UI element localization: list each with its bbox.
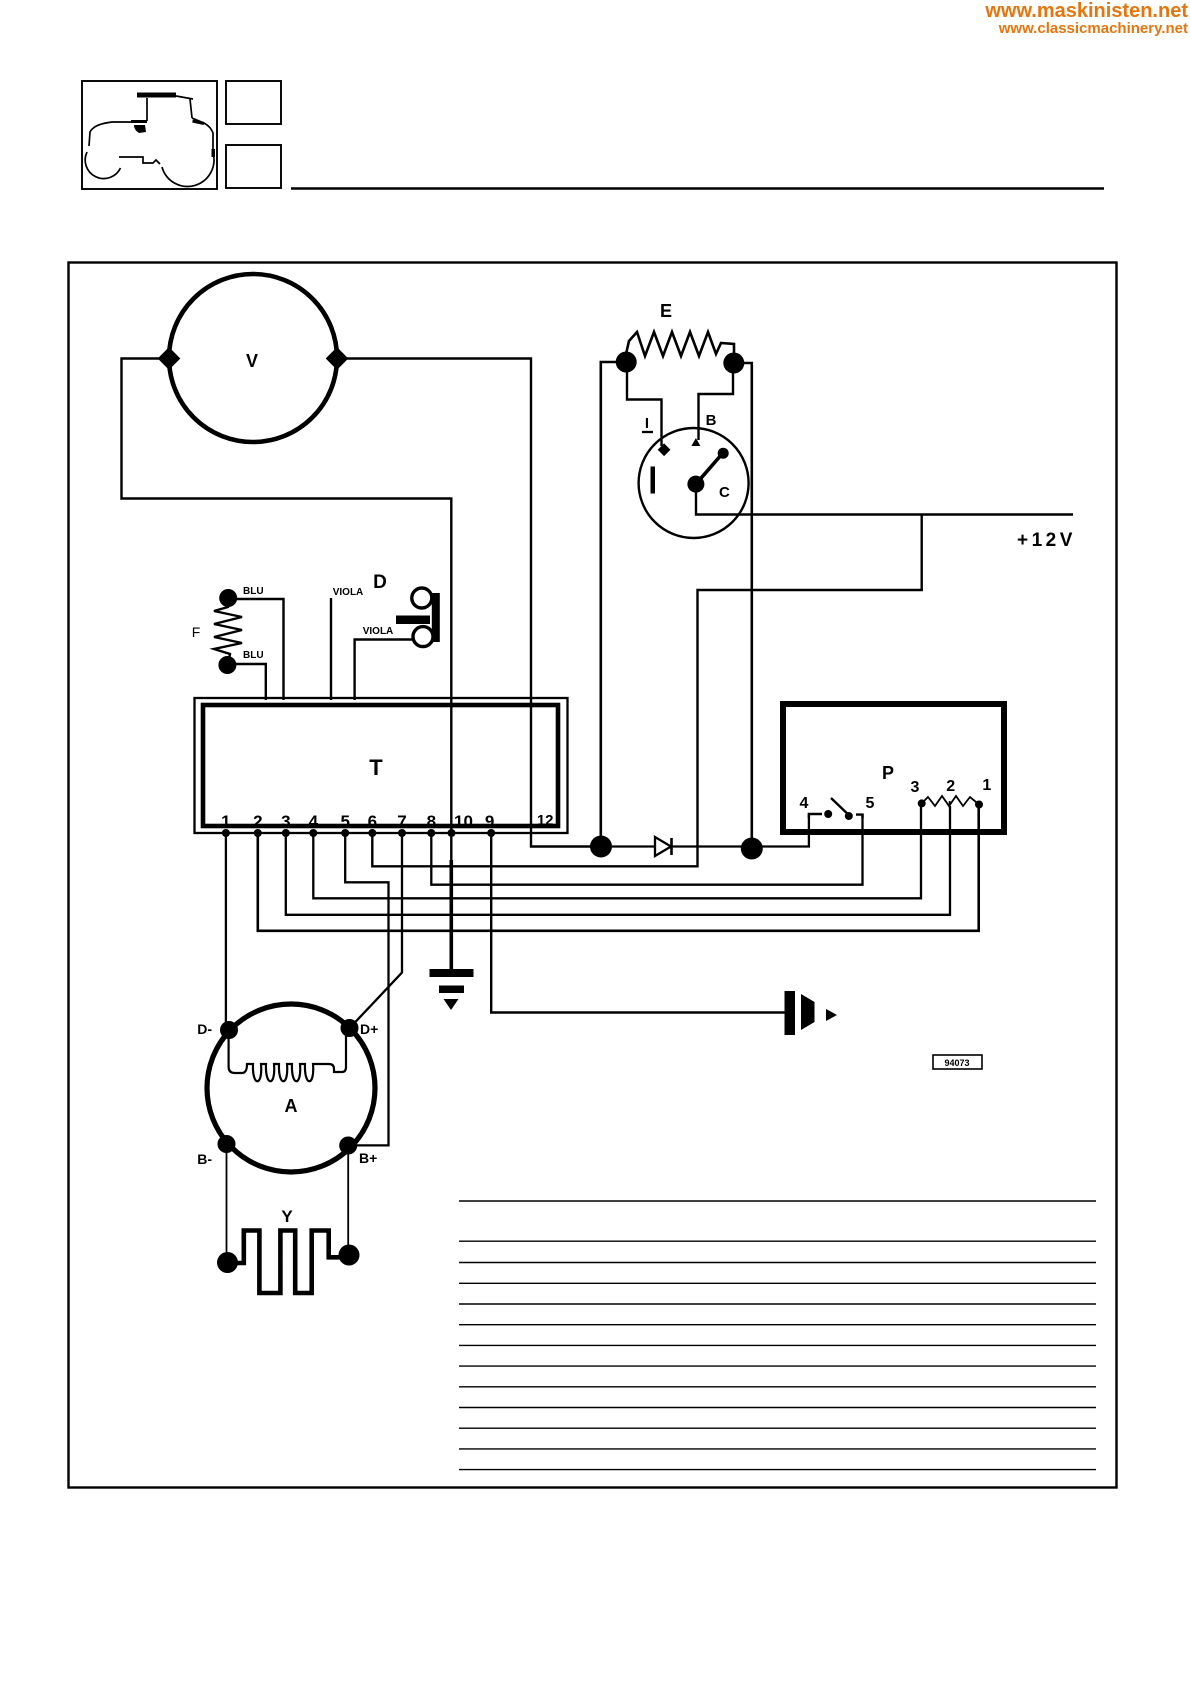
terminal I bbox=[658, 443, 671, 456]
svg-text:3: 3 bbox=[281, 812, 290, 831]
note line 4 bbox=[459, 1282, 1096, 1284]
note line 7 bbox=[459, 1344, 1096, 1346]
D bar bbox=[432, 593, 440, 642]
legend box 1 bbox=[226, 81, 281, 124]
note line 11 bbox=[459, 1427, 1096, 1429]
svg-text:7: 7 bbox=[397, 812, 406, 831]
wire junction to diode bbox=[612, 845, 655, 847]
note line 13 bbox=[459, 1469, 1096, 1471]
svg-text:D: D bbox=[373, 572, 387, 593]
svg-text:3: 3 bbox=[911, 779, 920, 796]
svg-text:2: 2 bbox=[946, 778, 955, 795]
svg-text:10: 10 bbox=[454, 812, 473, 831]
wire E right terminal to C terminal B bbox=[699, 371, 734, 440]
regulator T outer bbox=[195, 698, 568, 833]
svg-text:I: I bbox=[645, 415, 649, 432]
part number box bbox=[933, 1055, 982, 1069]
terminal D- bbox=[220, 1021, 238, 1039]
D contact circle bottom bbox=[413, 627, 433, 647]
svg-text:BLU: BLU bbox=[243, 650, 264, 661]
wire V+ down to diode junction bbox=[337, 359, 601, 847]
svg-text:VIOLA: VIOLA bbox=[333, 587, 364, 598]
svg-text:1: 1 bbox=[221, 812, 230, 831]
svg-text:B: B bbox=[706, 412, 717, 429]
svg-text:B-: B- bbox=[197, 1151, 212, 1167]
header rule bbox=[291, 187, 1104, 189]
wire B+ to Y bbox=[347, 1152, 349, 1247]
wire pin3 to P2 bbox=[286, 806, 950, 915]
svg-text:5: 5 bbox=[340, 812, 349, 831]
D contact circle top bbox=[412, 588, 432, 608]
svg-text:D+: D+ bbox=[360, 1021, 378, 1037]
terminal B bbox=[691, 438, 700, 446]
svg-text:www.classicmachinery.net: www.classicmachinery.net bbox=[998, 20, 1188, 37]
wire F top to T bbox=[236, 599, 284, 700]
control box P bbox=[783, 704, 1004, 832]
svg-text:www.maskinisten.net: www.maskinisten.net bbox=[984, 0, 1188, 22]
wire B- to Y bbox=[226, 1150, 228, 1254]
svg-text:T: T bbox=[369, 755, 383, 780]
regulator T inner bbox=[203, 705, 558, 826]
svg-text:9: 9 bbox=[485, 812, 494, 831]
wire pin8 to P5 bbox=[431, 814, 862, 885]
wire +12V step down to pin 6 bbox=[372, 515, 921, 867]
note line 12 bbox=[459, 1448, 1096, 1450]
voltmeter V bbox=[169, 274, 337, 442]
svg-text:BLU: BLU bbox=[243, 586, 264, 597]
contact bar bbox=[651, 467, 656, 494]
P rheostat bbox=[922, 796, 979, 806]
horn bbox=[785, 991, 796, 1035]
terminal V right bbox=[326, 347, 349, 370]
diode bbox=[655, 837, 671, 856]
svg-text:+12V: +12V bbox=[1017, 530, 1076, 551]
note line 10 bbox=[459, 1407, 1096, 1409]
rotor lever bbox=[696, 454, 722, 484]
note line 6 bbox=[459, 1324, 1096, 1326]
svg-text:12: 12 bbox=[537, 812, 554, 829]
note line 9 bbox=[459, 1386, 1096, 1388]
junction dot left bbox=[590, 836, 612, 858]
wire F bottom to T bbox=[235, 664, 266, 700]
terminal B+ bbox=[339, 1137, 357, 1155]
ground stem bbox=[449, 860, 453, 970]
wire E right to P junction bbox=[734, 363, 752, 849]
ignition switch C bbox=[639, 428, 749, 538]
wire V- loop to ground line bbox=[122, 359, 452, 971]
svg-text:5: 5 bbox=[866, 795, 875, 812]
svg-text:C: C bbox=[719, 484, 730, 501]
svg-text:Y: Y bbox=[281, 1207, 293, 1226]
wire pin5 to B+ bbox=[345, 833, 388, 1145]
svg-text:V: V bbox=[246, 351, 258, 371]
svg-text:D-: D- bbox=[197, 1021, 212, 1037]
svg-text:A: A bbox=[285, 1096, 298, 1116]
svg-text:F: F bbox=[192, 624, 201, 640]
P switch lever bbox=[831, 798, 849, 815]
wire E left to diode junction bbox=[601, 362, 626, 847]
svg-text:2: 2 bbox=[253, 812, 262, 831]
D arm bbox=[396, 616, 430, 625]
tractor icon bbox=[85, 95, 215, 186]
wire E left terminal to C terminal I bbox=[627, 370, 662, 446]
svg-text:B+: B+ bbox=[359, 1150, 377, 1166]
svg-text:4: 4 bbox=[800, 795, 809, 812]
note line 2 bbox=[459, 1240, 1096, 1242]
svg-text:E: E bbox=[660, 301, 672, 321]
wire VIOLA1 to T bbox=[330, 598, 332, 700]
terminal D+ bbox=[341, 1019, 359, 1037]
note line 3 bbox=[459, 1262, 1096, 1264]
field coil bbox=[229, 1036, 346, 1081]
svg-text:8: 8 bbox=[427, 812, 436, 831]
wire pin7 to D+ bbox=[353, 833, 403, 1025]
svg-text:1: 1 bbox=[982, 777, 991, 794]
note line 8 bbox=[459, 1365, 1096, 1367]
terminal 30 bbox=[718, 448, 729, 459]
wire C to +12V rail bbox=[696, 492, 1073, 515]
alternator A bbox=[207, 1004, 375, 1172]
svg-text:VIOLA: VIOLA bbox=[363, 626, 394, 637]
note line 5 bbox=[459, 1303, 1096, 1305]
ground bbox=[430, 969, 474, 977]
wire pin2 to P1 bbox=[258, 807, 979, 931]
wire pin1 to D- bbox=[225, 833, 227, 1022]
svg-text:6: 6 bbox=[368, 812, 377, 831]
wire pin9 to horn bbox=[491, 833, 784, 1013]
diagram frame bbox=[69, 263, 1117, 1488]
svg-text:P: P bbox=[882, 763, 894, 783]
rotor center bbox=[687, 476, 704, 493]
junction dot right bbox=[741, 838, 763, 860]
svg-text:94073: 94073 bbox=[944, 1058, 969, 1068]
wire diode to P4 bbox=[672, 814, 809, 847]
terminal B- bbox=[218, 1135, 236, 1153]
Y waveform bbox=[231, 1231, 342, 1294]
tractor icon box bbox=[82, 81, 217, 189]
terminal V left bbox=[158, 347, 181, 370]
note line 1 bbox=[459, 1200, 1096, 1202]
svg-text:4: 4 bbox=[309, 812, 319, 831]
wire VIOLA2 to T bbox=[355, 640, 412, 701]
legend box 2 bbox=[226, 145, 281, 188]
wire pin4 to P3 bbox=[313, 806, 921, 898]
